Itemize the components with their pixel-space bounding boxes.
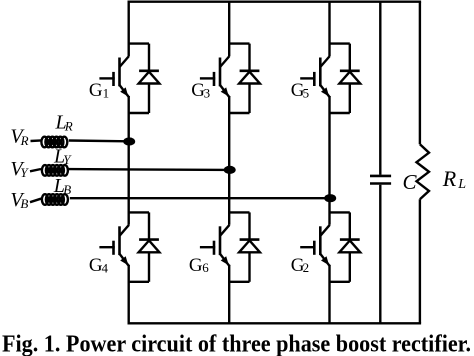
svg-text:B: B [20,196,28,211]
wire: VR stub [31,139,42,142]
inductor LY [42,165,68,176]
svg-text:5: 5 [303,85,310,100]
node B junction dot [324,194,336,202]
wire: phase leg B lower emitter segment [328,265,330,324]
svg-text:4: 4 [102,260,109,275]
wire: diode branch top for D5 [330,42,350,44]
wire: diode branch bottom for D2 [330,281,350,283]
inductor LR [41,137,67,148]
label LB [53,175,72,197]
svg-text:Fig. 1. Power circuit of three: Fig. 1. Power circuit of three phase boo… [2,330,471,356]
wire: diode branch vertical upper for D2 [349,212,351,239]
svg-text:C: C [403,170,418,194]
transistor Q5 (G5) [300,56,330,98]
label LY [53,145,72,167]
wire: resistor bottom lead [419,199,421,323]
label RL [442,166,466,192]
wire: diode branch vertical lower for D3 [248,84,250,114]
capacitor C [370,176,391,184]
node Y junction dot [224,166,236,174]
diode D4 [139,240,160,253]
wire: diode branch vertical upper for D1 [148,44,150,71]
label G1 [89,80,109,101]
svg-text:R: R [20,133,29,148]
wire: diode branch vertical upper for D6 [248,212,250,239]
wire: resistor top lead [419,2,421,145]
svg-text:R: R [442,166,457,191]
wire: diode branch vertical lower for D1 [148,84,150,114]
svg-text:B: B [63,182,71,197]
diode D5 [339,71,360,84]
transistor Q4 (G4) [99,225,129,266]
wire: diode branch vertical lower for D5 [349,84,351,114]
wire: phase leg B middle segment [328,96,330,225]
wire: capacitor top lead [379,2,381,175]
transistor Q6 (G6) [200,225,230,266]
label G3 [191,80,210,101]
svg-text:L: L [457,177,466,192]
svg-text:R: R [64,118,73,133]
label G6 [189,255,209,276]
diode D2 [339,240,360,253]
wire: top DC bus [128,1,422,3]
resistor RL [417,144,430,199]
wire: diode branch bottom for D5 [330,112,350,114]
label G5 [291,80,309,101]
wire: diode branch vertical upper for D5 [349,44,351,71]
svg-text:Y: Y [63,152,72,167]
wire: diode branch vertical upper for D3 [248,44,250,71]
svg-text:G: G [89,80,103,101]
wire: phase leg R lower emitter segment [127,265,129,324]
transistor Q3 (G3) [200,56,230,98]
svg-text:G: G [189,255,203,276]
svg-text:1: 1 [103,85,110,100]
inductor LB [42,194,68,205]
diode D1 [139,71,160,84]
wire: diode branch bottom for D6 [229,281,249,283]
wire: VY stub [30,169,41,171]
wire: phase leg B upper collector segment [328,2,330,56]
wire: phase leg Y lower emitter segment [228,265,230,324]
wire: VB to leg B [70,197,330,199]
label G4 [89,255,109,276]
wire: bottom DC bus [128,322,422,324]
wire: VB stub [30,198,43,202]
wire: diode branch vertical lower for D6 [248,252,250,281]
wire: phase leg R upper collector segment [127,2,129,56]
label VB [10,189,28,211]
wire: phase leg Y upper collector segment [228,2,230,56]
wire: phase leg R middle segment [127,96,129,225]
wire: diode branch bottom for D1 [129,112,149,114]
wire: VY to leg Y [68,168,229,171]
svg-text:3: 3 [204,85,211,100]
svg-text:6: 6 [202,260,209,275]
wire: VR to leg R [69,139,129,142]
label VR [10,126,28,148]
wire: diode branch bottom for D3 [229,112,249,114]
wire: diode branch bottom for D4 [129,281,149,283]
wire: phase leg Y middle segment [228,96,230,225]
label G2 [291,255,309,276]
wire: capacitor bottom lead [379,185,381,324]
svg-text:Y: Y [20,165,29,180]
transistor Q2 (G2) [300,225,330,266]
wire: diode branch top for D2 [330,211,350,213]
wire: diode branch vertical upper for D4 [148,212,150,239]
wire: diode branch top for D4 [129,211,149,213]
diode D3 [239,71,260,84]
diode D6 [239,240,260,253]
label VY [10,158,29,180]
svg-text:2: 2 [303,260,310,275]
wire: diode branch top for D6 [229,211,249,213]
node R junction dot [123,137,135,145]
wire: diode branch vertical lower for D4 [148,252,150,281]
wire: diode branch top for D3 [229,42,249,44]
wire: diode branch vertical lower for D2 [349,252,351,281]
wire: diode branch top for D1 [129,42,149,44]
label LR [55,112,73,134]
transistor Q1 (G1) [99,56,129,98]
